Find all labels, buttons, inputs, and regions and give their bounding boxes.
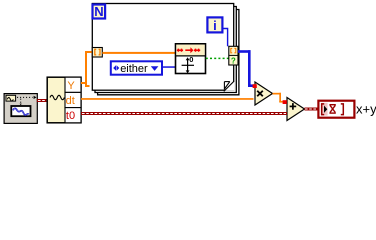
t0 cell: [65, 108, 81, 123]
zero crossing glyph: [182, 59, 194, 71]
red ++->++ glyph: [177, 47, 200, 53]
for-loop frame page 1 (front): [92, 4, 233, 91]
dt cell: [65, 92, 81, 107]
wire i to conditional tunnel: [223, 29, 228, 47]
auto-indexing tunnel (left): [92, 48, 102, 58]
Y cell: [65, 77, 81, 92]
waveform thumbnail inside icon: [11, 106, 30, 116]
wire dt to multiply: [81, 98, 254, 100]
svg-text:0: 0: [189, 55, 193, 64]
svg-text:x+y: x+y: [356, 102, 376, 117]
multiply node: [255, 82, 273, 105]
svg-text:i: i: [213, 18, 217, 33]
folded page corner: [225, 81, 235, 91]
enum constant "either": [111, 61, 162, 75]
wire add to indicator: [305, 108, 319, 111]
wire tunnel to PtByPt node: [102, 52, 175, 54]
coercion dot multiply: [253, 84, 257, 88]
i iteration terminal: [207, 17, 222, 33]
Boolean Crossing PtByPt node: [176, 44, 206, 74]
wire enum to node: [162, 66, 176, 68]
add node: [287, 98, 305, 121]
green boolean dotted wire: [206, 57, 229, 59]
waveform wire icon to unbundle: [37, 99, 47, 102]
svg-text:Y: Y: [67, 80, 75, 92]
N count terminal: [93, 4, 106, 19]
svg-text:?: ?: [231, 56, 236, 65]
t0 timestamp wire to add: [81, 112, 287, 115]
waveform source icon: [4, 94, 37, 124]
svg-text:dt: dt: [66, 95, 75, 107]
svg-text:t0: t0: [66, 110, 75, 122]
for-loop frame page 2: [95, 7, 236, 93]
wire multiply to add: [273, 93, 288, 103]
x+y waveform indicator terminal: [318, 101, 354, 118]
wire Y to loop tunnel: [81, 51, 92, 87]
dotted arrow inside icon: [17, 97, 33, 103]
svg-text:N: N: [94, 4, 103, 19]
blue array wire tunnel to multiply: [238, 50, 253, 87]
Get Waveform Components (unbundle) node: [47, 77, 81, 123]
svg-text:either: either: [120, 63, 148, 75]
conditional indexing tunnel (right): [229, 46, 238, 65]
for-loop frame page 3 (back): [98, 10, 239, 95]
coercion dot add: [283, 100, 287, 104]
